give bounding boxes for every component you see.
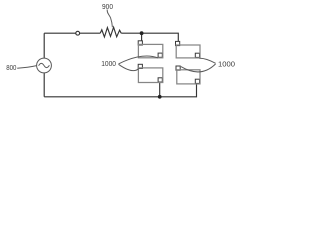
svg-text:1000: 1000 [101,59,116,68]
svg-text:1000: 1000 [218,60,235,69]
svg-text:900: 900 [102,4,113,11]
svg-text:800: 800 [6,65,16,72]
